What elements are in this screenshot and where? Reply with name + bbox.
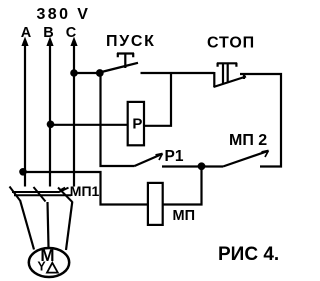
svg-text:А: А [21, 25, 32, 41]
svg-text:Р: Р [132, 116, 142, 133]
svg-text:СТОП: СТОП [207, 35, 255, 52]
svg-text:С: С [66, 25, 77, 41]
svg-text:МП: МП [173, 208, 196, 224]
svg-text:МП1: МП1 [70, 183, 100, 199]
svg-text:Y: Y [37, 260, 46, 274]
svg-text:РИС 4.: РИС 4. [218, 244, 279, 265]
svg-text:МП 2: МП 2 [229, 132, 267, 149]
svg-text:В: В [43, 25, 53, 41]
svg-text:380 V: 380 V [37, 6, 91, 23]
svg-text:ПУСК: ПУСК [106, 33, 156, 50]
svg-text:Р1: Р1 [165, 148, 184, 165]
